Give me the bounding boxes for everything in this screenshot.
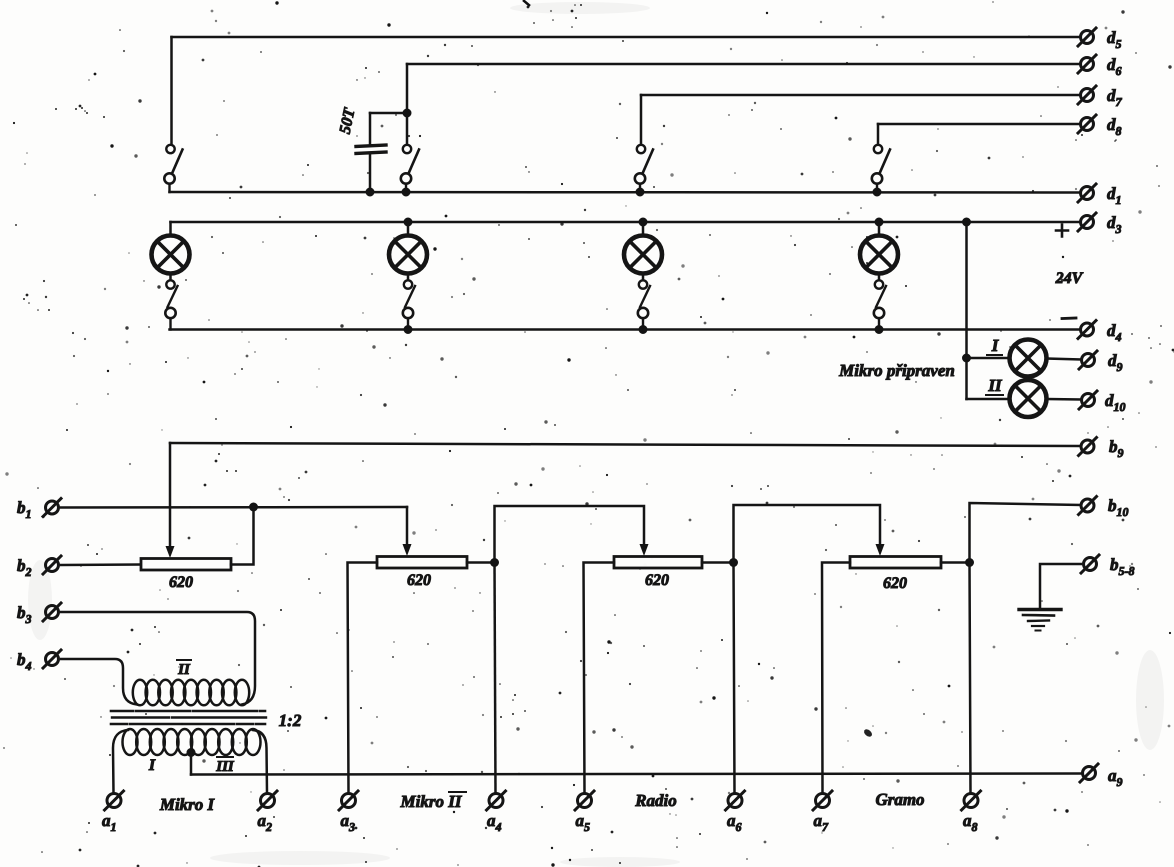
wire d5 horizontal	[172, 36, 1081, 39]
junction S4 on d1	[873, 188, 881, 196]
arrow tap R3	[640, 544, 649, 556]
terminal a7	[816, 794, 830, 808]
svg-text:Mikro II: Mikro II	[400, 792, 463, 811]
svg-text:II: II	[987, 376, 1003, 395]
minus sign	[1062, 317, 1076, 320]
svg-text:620: 620	[883, 575, 907, 592]
junction lamp H2 on d3	[404, 218, 412, 226]
terminal b9	[1081, 440, 1094, 453]
lamp H2	[389, 236, 427, 274]
wire d7 horizontal	[641, 94, 1081, 97]
wire R1 right up to b1	[231, 507, 254, 565]
arrow tap R2	[403, 544, 412, 556]
svg-text:1:2: 1:2	[279, 711, 302, 730]
switch S1	[166, 145, 174, 153]
svg-text:24V: 24V	[1055, 270, 1084, 287]
winding I left end to a1	[113, 730, 128, 793]
wire d8 horizontal	[878, 123, 1081, 126]
wire d4 bus	[170, 328, 1081, 331]
transformer T1 winding II (secondary, top)	[133, 680, 249, 706]
lamp H2 stub bottom	[407, 274, 410, 281]
wire b9 bus	[170, 443, 1081, 446]
junction R4 output	[966, 559, 974, 567]
terminal d5	[1081, 31, 1094, 44]
terminal b4	[46, 653, 59, 666]
wire b3 to winding II right end	[61, 612, 255, 705]
svg-text:Radio: Radio	[634, 791, 677, 810]
wire R3 right lead	[702, 561, 734, 564]
junction R2 output	[491, 559, 499, 567]
lamp H4 stub bottom	[878, 274, 881, 281]
wire R4 right lead	[941, 561, 970, 564]
wire d8 vertical drop to switch S4	[877, 124, 880, 144]
capacitor C1 50T top lead	[369, 113, 372, 145]
wire R4 output down to a8	[970, 563, 971, 793]
wire R4 output up to b10	[970, 503, 1081, 563]
svg-text:III: III	[215, 759, 235, 775]
terminal a2	[261, 794, 275, 808]
stray ink mark	[863, 728, 874, 738]
lamp H1 stub top	[169, 222, 172, 236]
terminal d3	[1081, 216, 1094, 229]
terminal a9	[1083, 767, 1096, 780]
svg-text:Mikro připraven: Mikro připraven	[838, 361, 955, 380]
wire R2 right lead	[467, 561, 495, 564]
ground symbol	[1019, 608, 1061, 611]
wire b4 to winding II left end	[61, 659, 137, 705]
resistor R4 620	[850, 557, 941, 569]
wire R3 output up and over to R4 tap	[734, 505, 881, 563]
transformer T1 core	[111, 710, 265, 713]
terminal d9	[1082, 354, 1095, 367]
wire b9 drop to R1 tap	[169, 443, 172, 547]
wire R3 output down to a6	[734, 563, 735, 793]
lamp H1	[152, 236, 190, 274]
wire center tap down	[190, 753, 193, 775]
transformer T1 winding I (primary, bottom)	[123, 729, 261, 755]
junction S3 on d1	[636, 188, 644, 196]
terminal b1	[46, 501, 59, 514]
wire d6 horizontal	[407, 63, 1081, 66]
capacitor C1 50T bottom lead	[369, 155, 372, 192]
wire from d3 bus down to indicator lamps	[965, 222, 968, 399]
junction S2 on d1	[402, 188, 410, 196]
resistor R2 620	[377, 557, 467, 569]
terminal d6	[1081, 58, 1094, 71]
lamp H3 stub top	[642, 222, 645, 236]
svg-text:620: 620	[645, 572, 669, 589]
svg-text:Gramo: Gramo	[875, 790, 924, 809]
wire R4 left lead to a7 drop	[822, 563, 850, 793]
svg-text:Mikro I: Mikro I	[159, 795, 216, 814]
lamp H1 stub bottom	[169, 274, 172, 281]
junction R1 output on b1	[250, 503, 258, 511]
arrow tap R1	[166, 546, 175, 558]
terminal b5-8	[1084, 558, 1097, 571]
junction lamp H4 on d3	[875, 218, 883, 226]
junction lamp H3 on d3	[639, 218, 647, 226]
svg-text:620: 620	[169, 574, 193, 591]
terminal b10	[1081, 499, 1094, 512]
switch under lamp H3	[639, 280, 647, 288]
svg-text:II: II	[177, 662, 191, 678]
wire a9 bus	[191, 774, 1081, 775]
lamp H2 stub top	[407, 222, 410, 236]
wire d1 bus	[170, 191, 1081, 194]
lamp H4	[860, 236, 898, 274]
terminal a6	[728, 794, 742, 808]
terminal b2	[46, 559, 59, 572]
arrow tap R4	[876, 544, 885, 556]
switch S4	[874, 145, 882, 153]
junction indicator branch	[963, 354, 971, 362]
terminal a3	[342, 794, 356, 808]
junction lamp H3 switch on d4	[639, 326, 647, 334]
winding I right end to a2	[253, 730, 267, 793]
wire lamp I to d9	[1047, 359, 1081, 360]
junction capacitor on d1 bus	[366, 188, 374, 196]
terminal d4	[1081, 323, 1094, 336]
switch S3	[637, 145, 645, 153]
wire to lamp I	[967, 357, 1010, 360]
wire b2 to R1	[61, 563, 141, 566]
terminal d8	[1081, 118, 1094, 131]
terminal a1	[107, 794, 121, 808]
wire R3 left lead to a5 drop	[584, 563, 615, 793]
junction R3 output	[730, 559, 738, 567]
terminal a4	[489, 794, 503, 808]
junction on d3 bus	[963, 218, 971, 226]
wire junction to capacitor C1	[370, 112, 407, 115]
wire R2 output down to a4	[495, 563, 496, 794]
capacitor C1 50T plates	[356, 145, 386, 147]
wire d7 vertical drop to switch S3	[640, 95, 643, 144]
lamp H4 stub top	[878, 222, 881, 236]
switch under lamp H2	[404, 280, 412, 288]
terminal d10	[1082, 394, 1095, 407]
terminal a8	[964, 794, 978, 808]
wire d3 bus	[171, 221, 1081, 224]
resistor R3 620	[614, 557, 702, 569]
terminal d1	[1081, 187, 1094, 200]
resistor R1 620	[141, 559, 231, 571]
switch under lamp H4	[875, 280, 883, 288]
svg-text:620: 620	[407, 572, 431, 589]
wire d6 vertical drop to switch S2	[406, 64, 409, 144]
wire lamp II to d10	[1047, 398, 1081, 401]
terminal d7	[1081, 89, 1094, 102]
winding I center tap	[187, 749, 195, 757]
plus sign	[1056, 225, 1068, 237]
wire b1 bus	[61, 506, 407, 509]
wire to lamp II	[967, 398, 1010, 401]
junction lamp H4 switch on d4	[875, 326, 883, 334]
wire R2 output up and over to R3 tap	[495, 506, 645, 563]
lamp II Mikro pripraven	[1010, 380, 1047, 417]
lamp I Mikro pripraven	[1010, 340, 1047, 377]
terminal a5	[578, 794, 592, 808]
stray mark top	[523, 0, 530, 6]
lamp H3	[624, 236, 662, 274]
wire d5 vertical drop to switch S1	[170, 37, 173, 145]
switch S2	[403, 145, 411, 153]
wire b1 drop to R2 tap	[406, 507, 409, 545]
wire b5-8 to ground	[1040, 564, 1081, 607]
junction on switch S2 branch	[403, 109, 411, 117]
wire R2 left lead to a3 drop	[348, 563, 378, 794]
lamp H3 stub bottom	[642, 274, 645, 281]
switch under lamp H1	[166, 280, 174, 288]
svg-text:I: I	[148, 757, 156, 774]
junction lamp H2 switch on d4	[404, 326, 412, 334]
terminal b3	[46, 606, 59, 619]
